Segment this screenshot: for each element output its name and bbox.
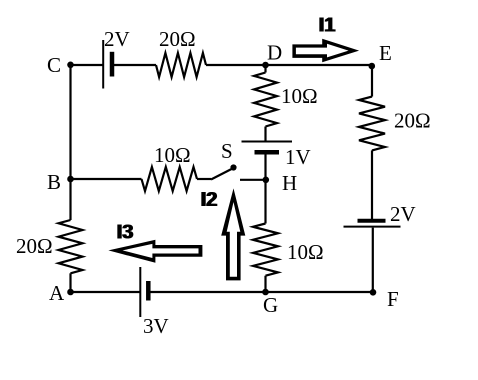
svg-text:10Ω: 10Ω [281, 84, 318, 108]
wire B to resistor 10ohm middle [71, 178, 142, 180]
node A [67, 289, 74, 296]
svg-text:E: E [379, 41, 392, 65]
arrow I1 [292, 39, 359, 62]
switch contact dot [230, 164, 236, 170]
resistor R-top 20ohm [156, 53, 206, 77]
node G [262, 289, 269, 296]
svg-text:G: G [263, 293, 278, 317]
battery 1V long plate [242, 141, 293, 143]
svg-text:F: F [387, 287, 399, 311]
wire B down to resistor 20ohm left [69, 179, 71, 220]
svg-text:I1: I1 [318, 15, 335, 37]
wire battery down to node F [372, 228, 374, 292]
svg-text:B: B [47, 170, 61, 194]
svg-text:I2: I2 [200, 189, 217, 211]
svg-text:2V: 2V [104, 27, 130, 51]
svg-text:H: H [282, 171, 297, 195]
resistor R-D 10ohm vertical [254, 73, 277, 127]
svg-text:1V: 1V [285, 145, 311, 169]
svg-text:2V: 2V [390, 202, 416, 226]
svg-text:10Ω: 10Ω [154, 143, 191, 167]
wire resistor to node D [206, 64, 266, 66]
battery 2V top long plate [102, 40, 104, 89]
wire resistor to battery 1V [264, 127, 266, 141]
node B [67, 176, 74, 183]
wire H down to resistor [264, 180, 266, 224]
wire C to battery [71, 64, 104, 66]
wire switch to node H [240, 179, 266, 181]
wire D down to resistor [264, 65, 266, 73]
node D [262, 62, 269, 69]
battery 2V right short thick plate [358, 219, 386, 223]
wire resistor to battery 2V right [371, 150, 373, 219]
battery 3V short thick plate [146, 281, 151, 301]
wire resistor to node A [69, 273, 71, 292]
wire battery to node G [151, 291, 266, 293]
node H [263, 177, 270, 184]
node E [369, 63, 376, 70]
wire resistor to switch [197, 178, 211, 180]
wire node G to node F [266, 291, 373, 293]
wire left column C to B [69, 65, 71, 179]
resistor R-left 20ohm vertical [59, 220, 83, 273]
svg-text:C: C [47, 53, 61, 77]
resistor R-E 20ohm vertical [359, 97, 385, 151]
svg-text:20Ω: 20Ω [16, 234, 53, 258]
svg-text:10Ω: 10Ω [287, 240, 324, 264]
svg-text:S: S [221, 139, 233, 163]
svg-text:D: D [267, 41, 282, 65]
svg-text:I3: I3 [116, 222, 133, 244]
svg-text:20Ω: 20Ω [159, 27, 196, 51]
wire E down to resistor [371, 65, 373, 97]
battery 2V top short thick plate [110, 52, 115, 77]
switch S blade [211, 169, 232, 180]
wire node D to node E [266, 64, 373, 66]
resistor R-mid 10ohm [142, 167, 198, 191]
wire resistor to node G [264, 276, 266, 292]
resistor R-HG 10ohm vertical [253, 224, 278, 276]
arrow I3 [108, 240, 202, 263]
svg-text:A: A [49, 281, 65, 305]
svg-text:20Ω: 20Ω [394, 109, 431, 133]
wire A to battery 3V [71, 291, 140, 293]
arrow I2 [221, 188, 245, 280]
node C [67, 62, 74, 69]
battery 3V long plate [139, 267, 141, 317]
svg-text:3V: 3V [143, 314, 169, 338]
wire battery to resistor 20ohm top [114, 64, 156, 66]
wire battery to node H [264, 154, 266, 180]
node F [370, 289, 377, 296]
battery 1V short thick plate [255, 150, 280, 155]
battery 2V right long plate [344, 226, 401, 228]
